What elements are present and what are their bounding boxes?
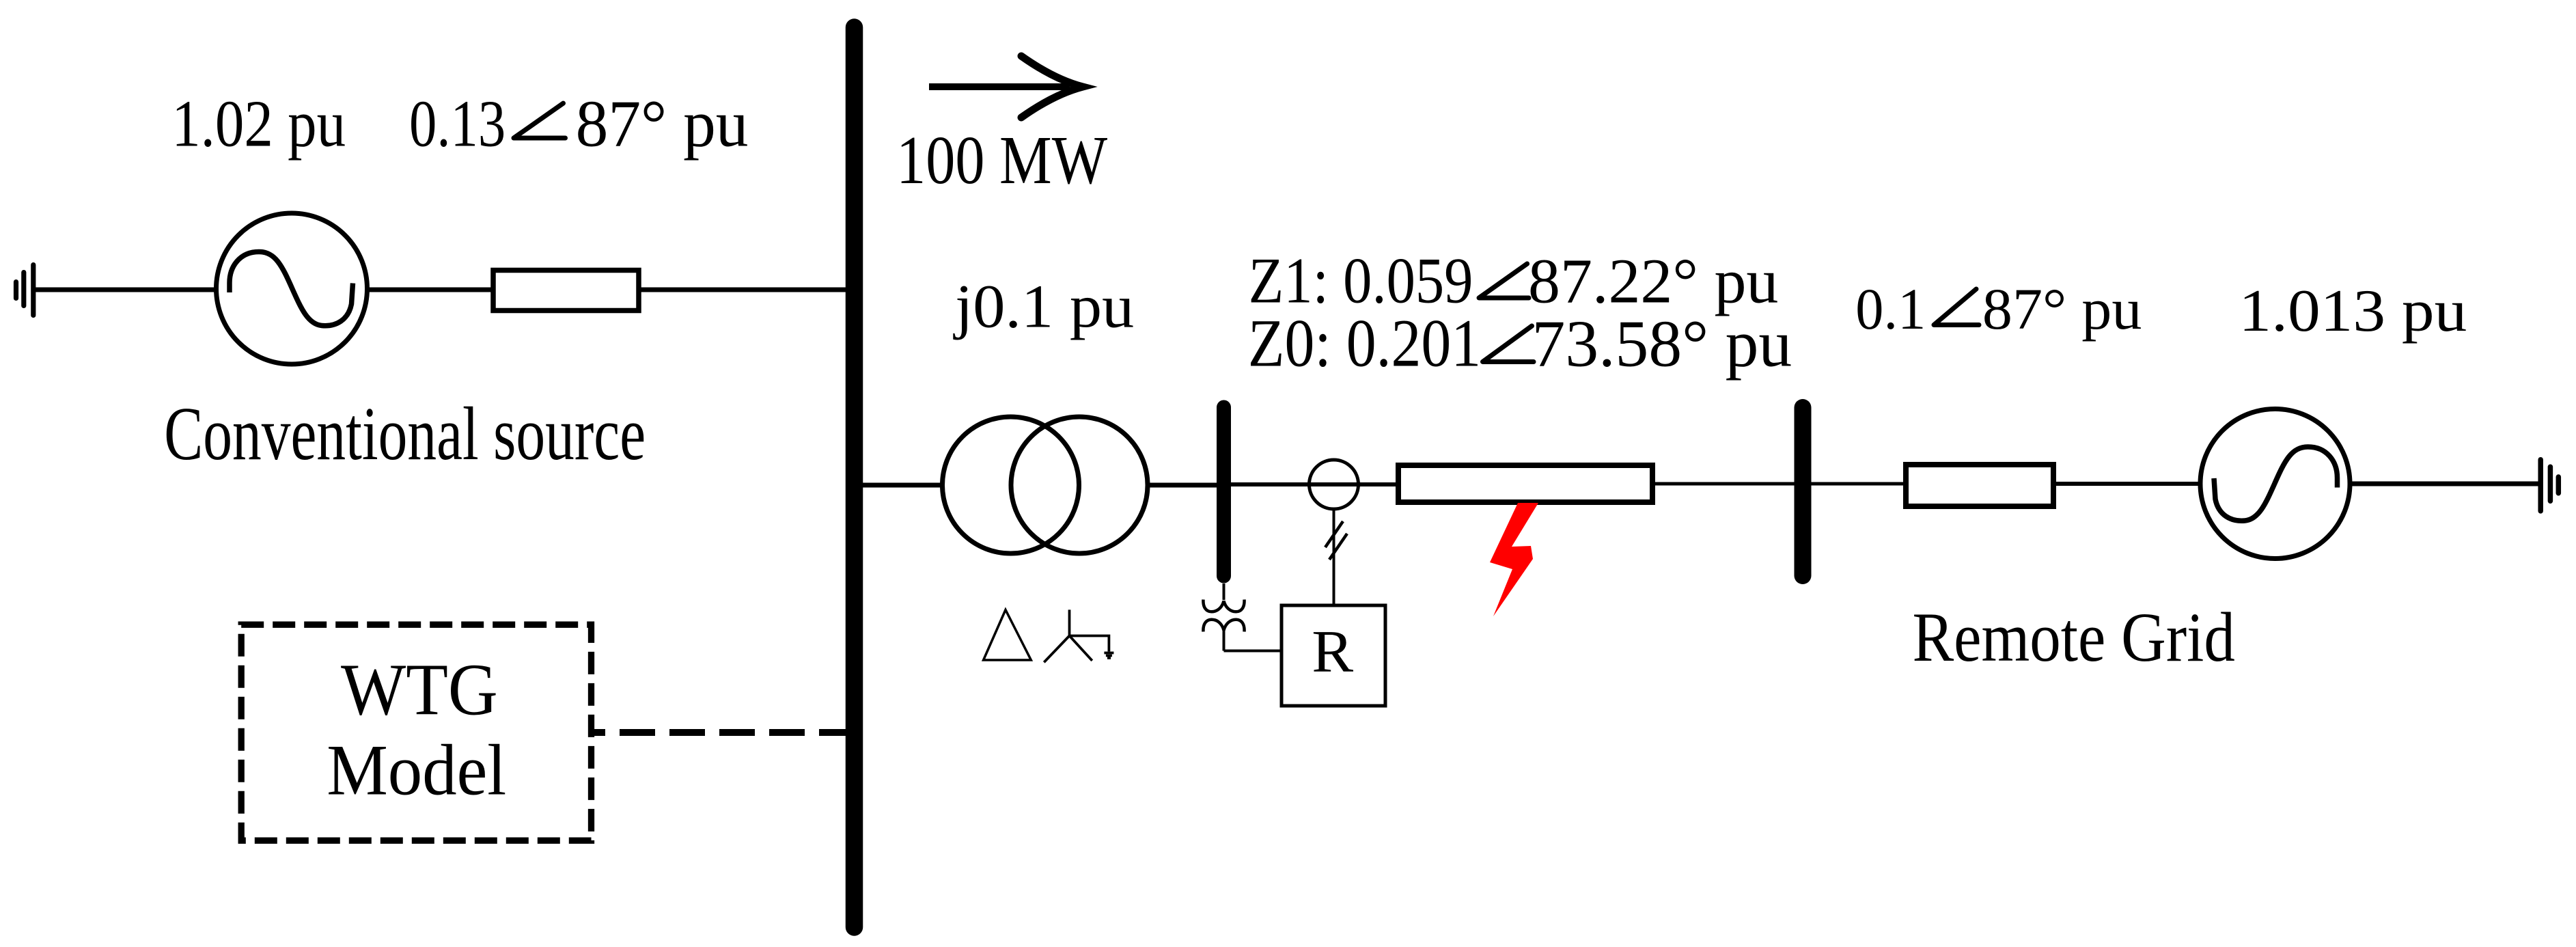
svg-text:0.13: 0.13	[409, 87, 505, 161]
svg-text:Z0: 0.201: Z0: 0.201	[1248, 307, 1481, 381]
svg-text:Conventional source: Conventional source	[164, 392, 646, 476]
svg-text:Model: Model	[327, 730, 506, 810]
svg-text:0.1: 0.1	[1855, 277, 1926, 342]
svg-text:Z1: 0.059: Z1: 0.059	[1249, 245, 1473, 317]
svg-text:WTG: WTG	[341, 649, 498, 731]
svg-text:1.02 pu: 1.02 pu	[171, 86, 346, 161]
svg-text:Remote Grid: Remote Grid	[1913, 599, 2235, 676]
svg-text:87° pu: 87° pu	[576, 87, 749, 161]
svg-text:87.22° pu: 87.22° pu	[1528, 247, 1778, 317]
svg-text:1.013 pu: 1.013 pu	[2239, 277, 2467, 344]
svg-text:R: R	[1312, 619, 1353, 685]
svg-text:j0.1 pu: j0.1 pu	[953, 273, 1134, 340]
svg-text:100 MW: 100 MW	[896, 123, 1108, 199]
svg-text:87° pu: 87° pu	[1982, 276, 2142, 342]
svg-text:73.58° pu: 73.58° pu	[1532, 307, 1792, 381]
